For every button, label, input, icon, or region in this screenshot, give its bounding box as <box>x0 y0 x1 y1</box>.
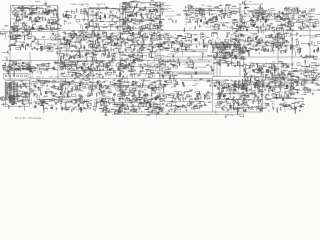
capacitor C269 <box>258 48 260 51</box>
wire <box>117 34 119 37</box>
resistor R304 <box>130 45 132 49</box>
sound IF box outline <box>232 59 244 66</box>
wire <box>46 6 51 8</box>
tube V16 1B3 <box>131 35 136 42</box>
transformer T40 <box>133 59 135 62</box>
deflection box outline <box>213 77 263 113</box>
tube V19 6AU6 <box>234 34 239 41</box>
junction <box>282 28 285 31</box>
wire <box>212 38 214 40</box>
resistor R250 <box>88 40 92 42</box>
inductor L52 <box>208 12 211 16</box>
resistor R66 <box>90 14 94 16</box>
wire <box>244 10 246 14</box>
inductor L20 <box>109 15 113 18</box>
resistor R123 <box>209 8 211 11</box>
wire <box>117 39 119 44</box>
resistor R362 <box>272 47 274 51</box>
resistor R288 <box>150 40 153 42</box>
ground <box>232 21 234 24</box>
transformer T44 <box>177 48 179 51</box>
svg-text:C195: C195 <box>197 11 201 13</box>
capacitor C116 <box>288 24 291 26</box>
svg-text:C89: C89 <box>132 16 135 18</box>
capacitor C13 <box>22 22 24 25</box>
transformer T15 <box>236 24 238 26</box>
wire <box>21 15 29 17</box>
junction <box>94 51 97 54</box>
resistor R206 <box>44 46 47 48</box>
wire <box>184 10 216 12</box>
resistor R372 <box>263 48 265 52</box>
wire <box>68 40 70 44</box>
svg-text:.001: .001 <box>283 68 287 70</box>
wire <box>38 16 44 18</box>
capacitor C75 <box>136 3 138 6</box>
svg-text:R52: R52 <box>241 12 244 14</box>
box 48 <box>94 58 97 60</box>
wire <box>56 48 63 50</box>
capacitor C127 <box>254 12 257 14</box>
resistor R141 <box>194 26 196 29</box>
resistor R81 <box>157 26 160 28</box>
capacitor C267 <box>257 42 260 44</box>
resistor R84 <box>144 6 146 10</box>
inductor L82 <box>37 41 40 46</box>
box 45 <box>112 54 115 56</box>
resistor R319 <box>208 40 210 43</box>
svg-text:C168: C168 <box>66 61 71 63</box>
resistor R368 <box>283 51 286 53</box>
capacitor C159 <box>79 54 81 57</box>
resistor R18 <box>46 11 50 13</box>
wire <box>88 45 90 48</box>
inductor L105 <box>150 54 153 58</box>
svg-text:L32: L32 <box>166 66 169 68</box>
box 37 <box>13 36 18 39</box>
junction <box>9 45 12 48</box>
wire <box>206 37 210 39</box>
resistor R183 <box>285 14 288 16</box>
wire <box>83 48 85 50</box>
wire <box>259 52 261 55</box>
resistor R171 <box>260 8 264 10</box>
resistor R106 <box>124 2 128 4</box>
svg-text:R160: R160 <box>83 108 87 110</box>
svg-text:C119: C119 <box>112 84 116 86</box>
box 9 <box>94 27 99 30</box>
capacitor C235 <box>133 49 136 51</box>
svg-text:R62: R62 <box>231 26 234 28</box>
wire <box>302 23 306 25</box>
wire <box>63 38 65 42</box>
wire <box>139 59 141 61</box>
resistor R276 <box>156 35 159 37</box>
inductor L129 <box>211 44 214 48</box>
svg-text:R66: R66 <box>308 67 311 69</box>
resistor R270 <box>114 38 119 40</box>
svg-text:47: 47 <box>70 48 72 50</box>
ground <box>228 46 230 49</box>
inductor L78 <box>11 44 16 47</box>
capacitor C134 <box>251 21 254 23</box>
capacitor C131 <box>241 19 243 22</box>
inductor L70 <box>301 22 304 26</box>
resistor R138 <box>213 17 218 19</box>
inductor L109 <box>142 41 145 46</box>
wire <box>132 54 135 56</box>
wire bus <box>160 56 318 58</box>
transformer T27 <box>27 44 29 46</box>
wire vertical <box>29 52 31 95</box>
resistor R311 <box>172 42 175 44</box>
svg-text:L91: L91 <box>185 19 188 21</box>
resistor R10 <box>17 20 21 22</box>
capacitor C19 <box>37 15 39 18</box>
svg-text:.01: .01 <box>249 72 251 74</box>
resistor R378 <box>269 36 273 38</box>
capacitor C57 <box>139 28 141 31</box>
junction <box>313 23 316 26</box>
box 75 <box>277 34 281 36</box>
svg-text:150K: 150K <box>113 45 118 47</box>
capacitor C143 <box>27 43 29 46</box>
capacitor C35 <box>118 18 121 20</box>
capacitor C81 <box>225 4 228 6</box>
svg-text:560: 560 <box>105 81 108 83</box>
wire <box>110 24 116 26</box>
wire <box>88 44 95 46</box>
inductor L113 <box>118 51 122 54</box>
svg-text:100: 100 <box>46 8 49 10</box>
box 56 <box>139 36 142 38</box>
wire <box>83 46 86 48</box>
capacitor C157 <box>106 36 109 38</box>
junction <box>153 10 156 13</box>
svg-text:470: 470 <box>34 94 37 96</box>
capacitor C282 <box>295 39 298 41</box>
junction <box>163 39 166 42</box>
ground <box>268 25 270 28</box>
svg-text:C173: C173 <box>145 9 149 11</box>
wire <box>125 26 127 28</box>
wire <box>46 21 48 24</box>
wire <box>274 13 278 15</box>
svg-text:L120: L120 <box>139 80 143 82</box>
svg-text:L1: L1 <box>215 21 217 23</box>
junction <box>219 41 222 44</box>
wire <box>43 40 45 44</box>
resistor R232 <box>66 53 68 58</box>
wire <box>32 21 38 23</box>
svg-text:C158: C158 <box>191 109 195 111</box>
resistor R257 <box>86 52 90 54</box>
resistor R215 <box>93 54 97 56</box>
box 82 <box>265 35 270 38</box>
capacitor C10 <box>35 17 38 19</box>
junction <box>101 50 104 53</box>
capacitor C186 <box>104 43 106 46</box>
resistor R260 <box>61 38 65 40</box>
svg-text:R116: R116 <box>46 89 50 91</box>
capacitor C20 <box>32 12 34 15</box>
resistor R29 <box>48 11 50 15</box>
capacitor C6 <box>56 14 59 16</box>
ground <box>256 17 258 20</box>
transformer T36 <box>85 54 87 56</box>
tube V18 1B3 <box>200 33 205 40</box>
svg-text:470: 470 <box>268 9 271 11</box>
capacitor C212 <box>119 36 121 39</box>
svg-text:L199: L199 <box>314 70 318 72</box>
wire <box>19 46 24 48</box>
resistor R95 <box>124 17 128 19</box>
wire <box>24 6 30 8</box>
resistor R130 <box>233 20 236 22</box>
wire <box>85 54 88 56</box>
resistor R351 <box>271 34 273 38</box>
wire <box>251 17 257 19</box>
inductor L98 <box>94 40 97 45</box>
resistor R199 <box>304 9 306 12</box>
resistor R252 <box>95 47 97 51</box>
svg-text:.01: .01 <box>41 87 43 89</box>
wire <box>257 18 264 20</box>
resistor R54 <box>95 15 98 17</box>
resistor R38 <box>47 6 52 8</box>
ground <box>120 59 122 62</box>
box 66 <box>181 47 185 50</box>
resistor R144 <box>239 14 243 16</box>
junction <box>291 20 294 23</box>
resistor R259 <box>86 57 88 61</box>
wire <box>277 27 285 29</box>
inductor L60 <box>249 19 254 22</box>
resistor R133 <box>219 10 223 12</box>
wire <box>108 21 110 23</box>
svg-text:C142: C142 <box>84 80 88 82</box>
resistor R14 <box>22 9 24 13</box>
svg-text:R68: R68 <box>261 16 264 18</box>
svg-text:R46: R46 <box>234 58 237 60</box>
junction <box>239 44 242 47</box>
capacitor C213 <box>120 36 122 39</box>
resistor R344 <box>281 35 283 39</box>
ground <box>286 17 288 20</box>
inductor L130 <box>232 38 236 41</box>
resistor R145 <box>196 18 200 20</box>
capacitor C222 <box>132 42 135 44</box>
resistor R285 <box>160 49 163 51</box>
wire <box>92 45 94 48</box>
inductor L136 <box>256 40 259 45</box>
wire <box>10 25 12 27</box>
capacitor C46 <box>109 16 111 19</box>
wire <box>146 11 151 13</box>
svg-text:R167: R167 <box>164 38 168 40</box>
transformer T41 <box>160 44 162 47</box>
svg-text:R139: R139 <box>306 20 311 22</box>
wire <box>53 9 57 11</box>
svg-text:C176: C176 <box>258 8 262 10</box>
wire <box>41 28 46 30</box>
capacitor C264 <box>236 44 239 46</box>
svg-text:68: 68 <box>277 17 279 19</box>
resistor R166 <box>262 23 264 27</box>
wire <box>186 15 189 17</box>
resistor R72 <box>139 21 141 25</box>
resistor R306 <box>158 34 162 36</box>
svg-text:.047: .047 <box>103 35 107 37</box>
resistor R137 <box>222 23 224 26</box>
box 40 <box>16 47 21 49</box>
svg-text:UHF: UHF <box>30 77 33 79</box>
inductor L86 <box>59 57 62 62</box>
transformer T11 <box>141 13 143 16</box>
resistor R227 <box>113 52 117 54</box>
wire <box>150 18 153 20</box>
inductor L135 <box>272 44 275 48</box>
inductor L75 <box>11 43 15 46</box>
wire <box>258 15 260 19</box>
resistor R104 <box>123 21 127 23</box>
resistor R303 <box>154 50 158 52</box>
box 41 <box>55 38 58 40</box>
capacitor C154 <box>89 39 91 42</box>
box 19 <box>238 28 243 31</box>
resistor R118 <box>224 15 226 19</box>
capacitor C94 <box>212 25 214 28</box>
transformer T5 <box>26 16 28 18</box>
resistor R126 <box>228 17 231 19</box>
resistor R380 <box>250 40 254 42</box>
resistor R67 <box>148 27 151 29</box>
wire <box>52 10 54 14</box>
wire <box>116 43 118 46</box>
wire <box>107 51 109 56</box>
svg-text:L118: L118 <box>133 0 137 2</box>
inductor L112 <box>119 33 122 38</box>
wire <box>81 36 83 40</box>
resistor R150 <box>225 7 227 12</box>
capacitor C113 <box>283 19 286 21</box>
inductor L80 <box>23 35 26 40</box>
capacitor C181 <box>107 56 110 58</box>
wire <box>75 54 77 58</box>
inductor L117 <box>127 46 131 49</box>
resistor R169 <box>279 11 281 14</box>
box 26 <box>284 8 289 10</box>
wire <box>44 17 46 21</box>
transformer T12 <box>127 19 129 21</box>
resistor R94 <box>137 12 140 14</box>
svg-text:C165: C165 <box>106 93 110 95</box>
capacitor C160 <box>97 44 100 46</box>
junction <box>216 6 219 9</box>
junction <box>155 59 158 62</box>
capacitor C290 <box>265 42 267 45</box>
transformer T20 <box>281 17 283 20</box>
ground <box>141 59 143 62</box>
resistor R173 <box>293 10 297 12</box>
wire bus <box>58 30 320 32</box>
resistor R302 <box>159 38 162 40</box>
svg-text:R142: R142 <box>67 23 71 25</box>
resistor R202 <box>27 38 31 40</box>
capacitor C156 <box>59 38 61 41</box>
svg-text:180K: 180K <box>128 49 133 51</box>
capacitor C243 <box>158 34 160 37</box>
junction <box>83 46 86 49</box>
svg-text:100: 100 <box>99 66 102 68</box>
wire <box>263 29 265 34</box>
wire <box>178 41 180 45</box>
capacitor C270 <box>255 45 258 47</box>
wire <box>234 45 238 47</box>
capacitor C97 <box>196 15 199 17</box>
capacitor C72 <box>124 8 127 10</box>
junction <box>305 7 308 10</box>
box 29 <box>251 22 256 25</box>
capacitor C12 <box>21 9 24 11</box>
box 54 <box>80 34 84 36</box>
capacitor C146 <box>48 48 51 50</box>
wire <box>231 28 239 30</box>
svg-text:560: 560 <box>24 99 27 101</box>
wire <box>107 37 109 41</box>
capacitor C60 <box>161 29 164 31</box>
transformer T8 <box>65 14 67 17</box>
wire <box>158 43 165 45</box>
wire <box>188 14 192 16</box>
ground <box>290 23 292 26</box>
wire <box>124 38 130 40</box>
inductor L56 <box>226 4 231 7</box>
wire <box>217 34 219 37</box>
junction <box>127 43 130 46</box>
resistor R256 <box>116 35 118 39</box>
resistor R254 <box>103 48 105 52</box>
wire <box>18 8 47 10</box>
junction <box>307 15 310 18</box>
wire <box>230 37 235 39</box>
inductor L103 <box>129 29 133 32</box>
resistor R101 <box>145 7 147 11</box>
wire <box>292 43 294 47</box>
ground <box>48 46 50 49</box>
capacitor C107 <box>265 28 268 30</box>
capacitor C172 <box>97 44 100 46</box>
svg-text:560: 560 <box>150 44 153 46</box>
inductor L17 <box>94 14 98 17</box>
capacitor C293 <box>264 48 267 50</box>
resistor R246 <box>91 52 94 54</box>
box 65 <box>178 35 182 37</box>
capacitor C115 <box>284 24 287 26</box>
ground <box>13 22 15 25</box>
junction <box>124 44 127 47</box>
capacitor C184 <box>99 37 101 40</box>
capacitor C24 <box>16 15 18 18</box>
capacitor C233 <box>121 52 124 54</box>
inductor L9 <box>62 13 65 17</box>
capacitor C163 <box>99 49 101 52</box>
svg-text:470: 470 <box>291 76 294 78</box>
wire <box>115 12 117 14</box>
inductor L66 <box>296 8 299 12</box>
resistor R35 <box>17 7 21 9</box>
junction <box>77 54 80 57</box>
